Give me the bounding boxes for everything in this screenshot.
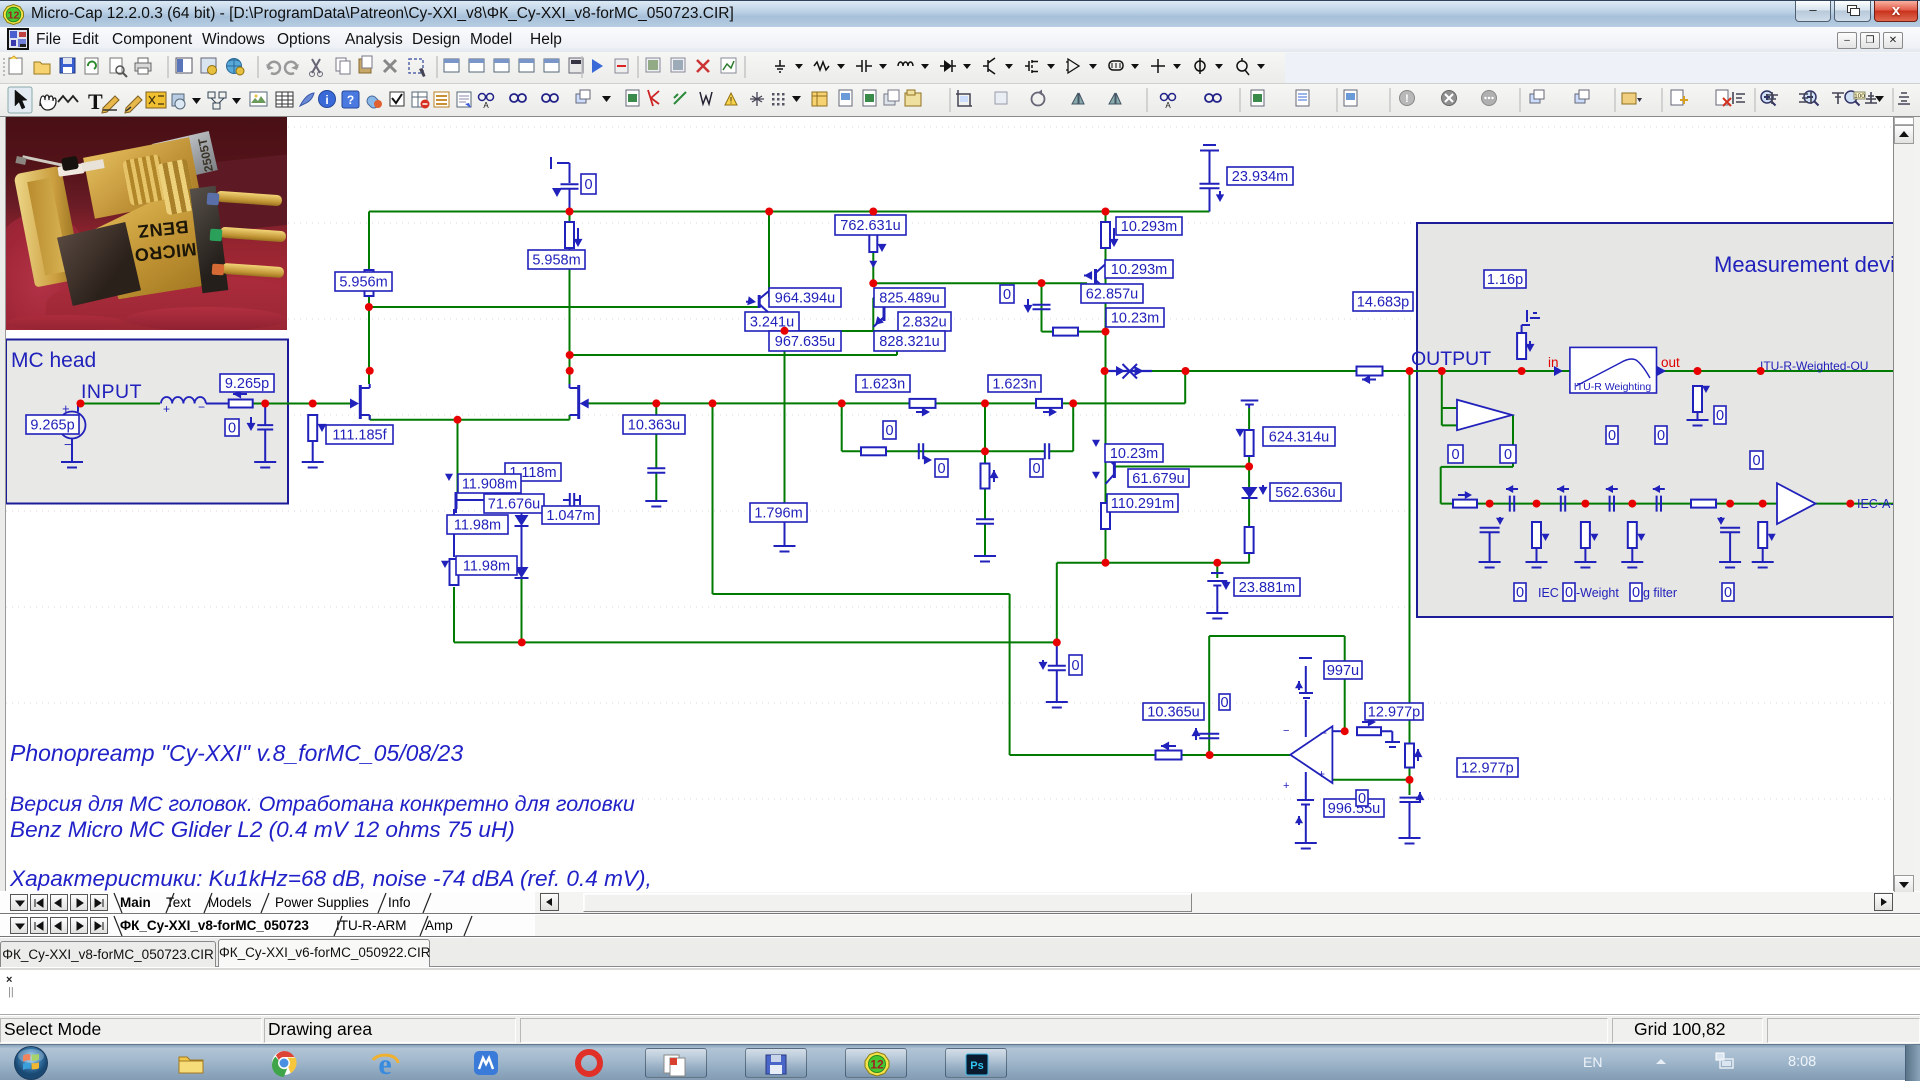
svg-text:2.832u: 2.832u (902, 315, 946, 331)
svg-text:11.908m: 11.908m (462, 477, 517, 493)
svg-text:0: 0 (228, 421, 236, 437)
svg-text:0: 0 (1071, 658, 1079, 674)
svg-text:−: − (1283, 725, 1289, 737)
svg-text:111.185f: 111.185f (332, 428, 387, 444)
svg-text:9.265p: 9.265p (225, 376, 269, 392)
svg-text:11.98m: 11.98m (463, 559, 510, 575)
svg-text:-Weight: -Weight (1576, 586, 1619, 600)
svg-text:!: ! (1405, 93, 1409, 105)
svg-text:−: − (64, 437, 72, 452)
svg-text:71.676u: 71.676u (488, 497, 540, 513)
svg-text:10.363u: 10.363u (628, 418, 680, 434)
svg-text:996.55u: 996.55u (1328, 801, 1380, 817)
svg-text:MC head: MC head (11, 349, 96, 372)
svg-text:762.631u: 762.631u (840, 218, 900, 234)
svg-text:12.977p: 12.977p (1368, 705, 1420, 721)
svg-text:3.241u: 3.241u (750, 315, 794, 331)
svg-text:T: T (88, 89, 103, 114)
svg-text:i: i (325, 93, 328, 107)
svg-text:825.489u: 825.489u (879, 291, 939, 307)
svg-text:1.623n: 1.623n (992, 377, 1036, 393)
svg-text:+: + (1318, 767, 1325, 781)
svg-text:14.683p: 14.683p (1357, 295, 1409, 311)
svg-text:0: 0 (1657, 428, 1665, 444)
svg-text:0: 0 (1003, 287, 1011, 303)
svg-text:0: 0 (1516, 585, 1524, 601)
svg-text:23.934m: 23.934m (1232, 169, 1288, 185)
svg-text:10.293m: 10.293m (1121, 219, 1177, 235)
svg-text:1.623n: 1.623n (861, 377, 905, 393)
svg-text:12.977p: 12.977p (1461, 761, 1513, 777)
svg-text:624.314u: 624.314u (1269, 430, 1329, 446)
svg-text:0: 0 (937, 461, 945, 477)
svg-text:0: 0 (1032, 461, 1040, 477)
svg-text:0: 0 (1220, 695, 1228, 711)
svg-text:967.635u: 967.635u (775, 334, 835, 350)
svg-text:Benz Micro MC Glider L2 (0.4 m: Benz Micro MC Glider L2 (0.4 mV 12 ohms … (10, 817, 515, 842)
svg-text:!: ! (730, 96, 733, 106)
svg-text:0: 0 (1608, 428, 1616, 444)
svg-text:0: 0 (1565, 585, 1573, 601)
svg-text:A: A (483, 101, 489, 110)
svg-text:+: + (163, 402, 170, 416)
svg-text:0: 0 (1451, 447, 1459, 463)
svg-text:IEC-A-: IEC-A- (1857, 497, 1895, 511)
svg-text:0: 0 (1632, 585, 1640, 601)
svg-text:ITU-R-Weighted-OU: ITU-R-Weighted-OU (1760, 359, 1868, 373)
svg-text:+: + (62, 401, 70, 416)
svg-text:0: 0 (885, 423, 893, 439)
svg-text:62.857u: 62.857u (1086, 287, 1138, 303)
svg-text:1.047m: 1.047m (546, 508, 594, 524)
svg-text:0: 0 (1716, 408, 1724, 424)
svg-text:−: − (198, 400, 205, 414)
svg-text:23.881m: 23.881m (1239, 580, 1295, 596)
svg-text:INPUT: INPUT (81, 381, 142, 403)
svg-text:out: out (1661, 355, 1680, 370)
svg-text:562.636u: 562.636u (1275, 485, 1335, 501)
svg-text:−: − (1320, 726, 1327, 740)
svg-text:0: 0 (1358, 791, 1366, 807)
svg-text:0: 0 (1752, 453, 1760, 469)
svg-text:12: 12 (8, 10, 20, 22)
svg-text:0: 0 (1504, 447, 1512, 463)
svg-text:10.293m: 10.293m (1111, 262, 1167, 278)
svg-text:11.98m: 11.98m (454, 518, 501, 534)
svg-text:10.23m: 10.23m (1110, 446, 1158, 462)
svg-text:+: + (1283, 780, 1289, 792)
svg-text:5.956m: 5.956m (339, 275, 387, 291)
svg-text:?: ? (347, 93, 354, 107)
svg-text:OUTPUT: OUTPUT (1411, 348, 1491, 370)
svg-text:Ps: Ps (970, 1060, 983, 1072)
svg-text:1.796m: 1.796m (754, 506, 802, 522)
svg-text:1.16p: 1.16p (1487, 272, 1523, 288)
svg-text:A: A (1165, 101, 1171, 110)
svg-text:10.365u: 10.365u (1147, 705, 1199, 721)
svg-text:g filter: g filter (1643, 586, 1677, 600)
svg-text:5.958m: 5.958m (532, 253, 580, 269)
svg-text:Phonopreamp "Cy-XXI" v.8_forMC: Phonopreamp "Cy-XXI" v.8_forMC_05/08/23 (10, 740, 463, 766)
svg-text:e: e (378, 1048, 391, 1078)
svg-text:Measurement devi: Measurement devi (1714, 252, 1895, 277)
svg-text:964.394u: 964.394u (775, 291, 835, 307)
svg-text:10.23m: 10.23m (1111, 311, 1159, 327)
svg-text:0: 0 (584, 177, 592, 193)
svg-text:Характеристики: Ku1kHz=68 dB,: Характеристики: Ku1kHz=68 dB, noise -74 … (9, 866, 652, 891)
svg-text:61.679u: 61.679u (1132, 471, 1184, 487)
svg-text:ITU-R Weighting: ITU-R Weighting (1574, 381, 1652, 393)
svg-text:9.265p: 9.265p (30, 418, 74, 434)
svg-text:IEC: IEC (1538, 586, 1559, 600)
svg-text:110.291m: 110.291m (1111, 496, 1174, 512)
svg-text:100: 100 (1854, 93, 1865, 100)
svg-text:Версия для МС головок. Отработ: Версия для МС головок. Отработана конкре… (10, 792, 635, 816)
svg-text:12: 12 (870, 1058, 884, 1072)
svg-text:997u: 997u (1327, 663, 1359, 679)
svg-text:0: 0 (1724, 585, 1732, 601)
svg-text:828.321u: 828.321u (879, 334, 939, 350)
